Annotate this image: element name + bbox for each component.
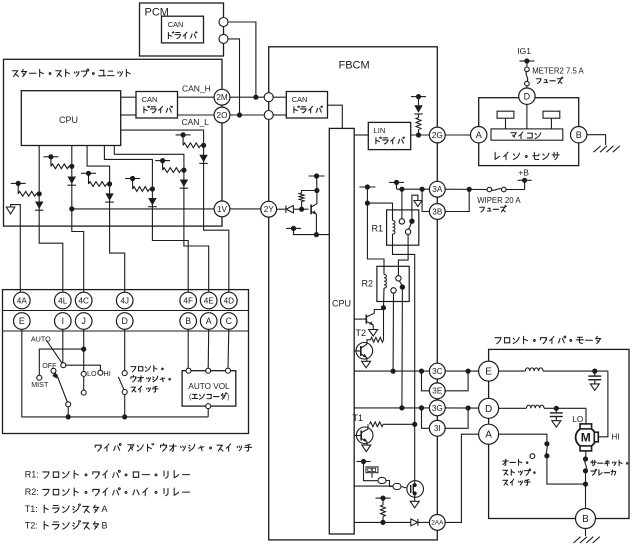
svg-text:3A: 3A: [432, 185, 443, 194]
svg-text:LIN: LIN: [374, 126, 386, 135]
wiper switch blade to AUTO: [46, 340, 62, 363]
svg-text:4C: 4C: [78, 296, 89, 305]
wire 3C to E: [445, 369, 479, 374]
svg-text:3G: 3G: [432, 404, 443, 413]
pull-up tap R1 coil: [359, 184, 375, 205]
label LO: [572, 415, 583, 424]
transistor T1: [354, 424, 373, 451]
legend T1: [25, 504, 108, 514]
terminal C: [221, 313, 238, 330]
wire to 3A: [397, 187, 430, 192]
svg-text:R2: R2: [362, 279, 374, 289]
connector 4J: [116, 292, 133, 309]
legend T2: [25, 520, 108, 530]
auto stop switch: [499, 434, 586, 484]
chassis ground rain sensor: [594, 146, 620, 152]
wire CPU to 4J cell: [87, 146, 125, 293]
wiper switch AUTO contact: [61, 329, 66, 367]
svg-text:B: B: [576, 130, 582, 140]
wire CPU to 4C cell: [69, 146, 83, 293]
svg-text:4F: 4F: [183, 296, 193, 305]
transistor 2Y input: [311, 191, 317, 235]
wire PCM CAN_H to bus: [228, 22, 259, 100]
svg-text:4E: 4E: [204, 296, 215, 305]
+B feed tap: [506, 178, 531, 190]
svg-text:CPU: CPU: [59, 115, 78, 125]
label front wiper motor: [495, 336, 601, 344]
wire CPU to CAN driver CAN_H: [121, 96, 136, 98]
connector 4L: [55, 292, 72, 309]
wire 3E branch: [422, 371, 430, 391]
wire 1V to 2Y: [230, 208, 262, 210]
resistor 2AA: [380, 505, 385, 525]
svg-text:A: A: [102, 504, 108, 514]
wire R2 NO contact to 3G line: [401, 290, 404, 408]
wire A to AUTO VOL: [207, 329, 210, 368]
svg-text:D: D: [122, 316, 128, 326]
CPU (FBCM): [329, 128, 354, 534]
wire CPU to 4F cell: [104, 146, 188, 293]
svg-text:1V: 1V: [217, 205, 228, 214]
wire D line to LO brush: [585, 408, 587, 424]
label circuit breaker: [591, 460, 628, 475]
svg-text:T1:: T1:: [25, 504, 38, 514]
wire J node to MIST contact: [37, 349, 84, 380]
signal ground (start-stop unit): [6, 205, 20, 292]
caption wiper and washer switch: [95, 443, 251, 451]
CPU (start-stop unit): [21, 91, 120, 146]
svg-text:LO: LO: [87, 369, 97, 378]
terminal J: [75, 313, 92, 330]
svg-text:CAN: CAN: [142, 95, 158, 104]
connector 2O: [178, 107, 230, 123]
svg-text:3C: 3C: [432, 367, 443, 376]
wire D to microcomputer: [526, 104, 528, 128]
connector D rain sensor: [519, 88, 535, 104]
svg-text:2O: 2O: [217, 111, 228, 120]
svg-text:HI: HI: [611, 433, 619, 442]
pull-up tap for 4E input: [155, 158, 170, 170]
diode 2AA: [411, 519, 430, 526]
svg-text:3I: 3I: [434, 424, 441, 433]
pull-up tap LIN: [411, 94, 426, 105]
resistor 4C input: [51, 164, 75, 169]
svg-text:D: D: [524, 91, 531, 101]
connector 3G: [429, 400, 445, 416]
svg-text:J: J: [81, 316, 85, 326]
svg-text:FBCM: FBCM: [339, 60, 370, 72]
wire 2AA to A: [445, 434, 479, 522]
label OFF: [42, 361, 57, 370]
rain sensor element left: [497, 111, 514, 129]
inductor D line: [499, 405, 586, 411]
wire AUTO VOL to common bus: [207, 409, 209, 417]
connector 4D: [221, 292, 238, 309]
transistor T2: [354, 343, 372, 368]
legend R1: [25, 470, 190, 480]
pull-up tap for 4D input: [176, 132, 191, 145]
CAN driver (FBCM): [273, 92, 328, 119]
svg-text:METER2 7.5 A: METER2 7.5 A: [532, 67, 584, 76]
svg-text:3E: 3E: [432, 387, 443, 396]
main wiper blade (OFF position): [51, 368, 71, 419]
terminal I: [55, 313, 72, 330]
label WIPER fuse: [477, 196, 521, 212]
svg-text:T2:: T2:: [25, 521, 38, 531]
svg-text:4J: 4J: [120, 296, 129, 305]
pull-down tap 2AA: [376, 496, 391, 506]
resistor 4D input: [183, 143, 206, 148]
wiper speed blade LO: [81, 376, 86, 395]
PCM CAN_L output pin: [219, 34, 228, 43]
relay R2 coil: [367, 203, 386, 310]
wire 3I branch: [422, 408, 430, 428]
svg-text:2M: 2M: [216, 93, 228, 102]
microcomputer box: [491, 129, 563, 140]
wire PCM CAN_L to bus: [228, 39, 242, 118]
resistor 2Y base: [299, 188, 319, 209]
svg-text:4D: 4D: [224, 296, 235, 305]
label IG1: [517, 46, 531, 56]
resistor T2 base: [367, 308, 384, 344]
label MIST: [31, 380, 49, 389]
label +B: [518, 168, 529, 178]
pull-up tap 2Y: [309, 173, 325, 190]
legend R2: [25, 487, 190, 497]
pull-up tap 2Y emitter: [286, 226, 329, 237]
svg-text:2G: 2G: [432, 131, 443, 140]
svg-text:A: A: [485, 430, 492, 441]
wire CPU to 3G: [354, 405, 430, 410]
connector 4A: [13, 292, 30, 309]
svg-text:E: E: [19, 316, 25, 326]
PCM CAN_H output pin: [219, 18, 228, 27]
start-stop unit box: [4, 59, 223, 226]
svg-text:R1: R1: [372, 224, 384, 234]
svg-text:+B: +B: [518, 168, 529, 178]
svg-text:AUTO VOL: AUTO VOL: [188, 382, 230, 391]
svg-text:CPU: CPU: [332, 299, 351, 309]
svg-text:C: C: [226, 316, 233, 326]
connector A motor: [479, 424, 499, 444]
wire C to AUTO VOL: [227, 329, 230, 368]
front wiper motor box: [489, 349, 629, 518]
diode 4C input: [68, 177, 77, 186]
label AUTO: [31, 335, 51, 344]
resistor 4E input: [163, 168, 187, 173]
label LO HI: [87, 369, 111, 378]
AUTO VOL encoder: [182, 368, 236, 408]
svg-text:CAN: CAN: [168, 20, 184, 29]
relay R2 box: [362, 266, 410, 301]
resistor LIN: [416, 114, 421, 135]
MOSFET output: [407, 481, 424, 508]
label CAN_L: [182, 117, 210, 127]
rain sensor element right: [543, 111, 560, 129]
svg-text:3B: 3B: [432, 207, 443, 216]
connector 3I: [429, 420, 445, 436]
wire AUTO contact to HI contact: [66, 365, 103, 375]
terminal D: [116, 313, 133, 330]
svg-text:AUTO: AUTO: [31, 335, 51, 344]
connector 3E: [429, 383, 445, 399]
wire CPU to 2AA: [354, 521, 411, 523]
wire 3B to fuse node: [445, 189, 469, 211]
wire CPU to gate driver: [354, 485, 393, 487]
wire breaker to B: [585, 484, 587, 509]
svg-text:HI: HI: [104, 369, 111, 378]
connector B rain sensor: [571, 127, 587, 143]
svg-text:T1: T1: [353, 413, 364, 423]
washer switch: [118, 329, 127, 419]
svg-text:IG1: IG1: [517, 46, 531, 56]
label front washer switch: [131, 366, 170, 393]
label rain sensor: [495, 152, 559, 159]
transistor T2 driver: [354, 308, 383, 336]
svg-text:R2:: R2:: [25, 487, 39, 497]
relay R1 contacts: [399, 189, 422, 234]
svg-text:2AA: 2AA: [431, 520, 444, 527]
svg-text:E: E: [485, 367, 492, 378]
connector D motor: [479, 398, 499, 418]
wire terminal J to LO contact: [81, 329, 86, 376]
wire E line to HI brush: [599, 371, 608, 437]
diode 4D input: [199, 155, 208, 164]
circuit breaker: [583, 451, 588, 487]
connector 4C: [75, 292, 92, 309]
chassis ground motor: [574, 529, 600, 544]
svg-text:R1:: R1:: [25, 470, 39, 480]
diode 2Y input: [276, 206, 308, 213]
terminal A: [200, 313, 217, 330]
diode LIN: [414, 105, 422, 114]
diode 4E input: [180, 180, 189, 189]
svg-text:4L: 4L: [58, 296, 68, 305]
svg-text:M: M: [581, 431, 591, 445]
relay R1 coil: [367, 203, 414, 481]
resistor 4F input: [133, 186, 155, 191]
svg-text:): ): [227, 394, 229, 401]
diode 4F input: [148, 198, 157, 207]
connector 1V: [72, 201, 230, 217]
label auto stop switch: [503, 459, 536, 485]
connector 2G: [411, 127, 445, 143]
wire CPU to 4D cell: [121, 130, 229, 292]
svg-text:CAN_H: CAN_H: [182, 84, 211, 94]
label CAN_H: [182, 84, 211, 94]
label HI: [611, 433, 619, 442]
svg-text:I: I: [62, 316, 64, 326]
connector A rain sensor: [445, 127, 487, 143]
LIN driver: [354, 122, 410, 149]
pull-up tap gate driver: [357, 459, 379, 481]
connector 2M: [178, 89, 230, 105]
connector 3B: [429, 204, 445, 220]
resistor 4L input: [18, 191, 42, 196]
rain sensor box: [479, 98, 579, 166]
wire CPU to 4E cell: [114, 146, 208, 293]
wiper and washer switch box: [3, 290, 249, 434]
wire R2 common to 3C line: [392, 293, 394, 371]
svg-text:CAN: CAN: [292, 95, 308, 104]
wire CPU to CAN driver CAN_L: [121, 114, 136, 116]
fuse WIPER 20A: [487, 187, 506, 192]
svg-text:4A: 4A: [17, 296, 28, 305]
CAN driver (PCM): [162, 16, 204, 43]
wire B to ground: [587, 135, 606, 145]
connector 2AA: [429, 515, 445, 531]
capacitor D line: [550, 408, 563, 427]
svg-text:B: B: [582, 514, 589, 525]
svg-text:B: B: [102, 521, 108, 531]
FBCM CAN_L input pin: [264, 111, 273, 120]
label METER2 fuse: [532, 67, 584, 84]
CAN driver (start-stop unit): [136, 92, 178, 119]
terminal E: [13, 313, 30, 330]
svg-text:A: A: [476, 130, 482, 140]
capacitor E line: [588, 371, 601, 390]
wire 3I branch to D line: [444, 408, 468, 428]
svg-text:MIST: MIST: [31, 380, 49, 389]
connector 3C: [429, 363, 445, 379]
connector 4E: [200, 292, 217, 309]
connector 3A: [429, 181, 445, 197]
wire CPU to 4L cell: [39, 146, 63, 293]
motor M: [576, 424, 599, 451]
gate driver buffers: [378, 478, 407, 490]
wire 3G to D: [445, 405, 479, 410]
wire R1 common to R2 contact: [398, 234, 408, 275]
label T1: [353, 413, 364, 423]
inductor E line: [499, 368, 608, 374]
diode 4L input: [35, 202, 44, 211]
resistor T1 collector: [370, 422, 418, 427]
pull-up tap for 4L input: [11, 181, 26, 194]
pull-up tap for 4C input: [43, 154, 58, 166]
pull-up tap for 4J input: [81, 171, 96, 184]
wire CAN driver to CPU: [328, 105, 343, 128]
wire CPU to 3C: [354, 369, 430, 374]
wire 2M to FBCM CAN_H: [230, 96, 265, 98]
connector 2Y: [261, 201, 277, 217]
resistor 4J input: [89, 181, 113, 186]
pull-up tap 3A: [389, 180, 404, 189]
svg-text:A: A: [206, 316, 212, 326]
connector B motor: [576, 509, 596, 529]
wire B to AUTO VOL: [187, 329, 189, 368]
IG1 feed tap: [519, 58, 534, 67]
wire 2O to FBCM CAN_L: [230, 114, 265, 116]
fuse METER2 7.5A: [525, 67, 530, 88]
PCM module box: [140, 3, 224, 56]
connector 4F: [180, 292, 197, 309]
svg-text:LO: LO: [572, 415, 583, 424]
svg-text:WIPER 20 A: WIPER 20 A: [477, 196, 521, 205]
connector E motor: [479, 361, 499, 381]
wire terminal E to common bus: [22, 329, 208, 417]
svg-text:T2: T2: [356, 328, 367, 338]
svg-text:D: D: [485, 404, 492, 415]
wire 3B branch: [422, 189, 430, 211]
charge pump box: [366, 467, 378, 478]
terminal B: [180, 313, 197, 330]
wire 3A to fuse: [445, 187, 487, 192]
diode 4J input: [105, 193, 114, 202]
svg-text:2Y: 2Y: [264, 205, 275, 214]
FBCM box: [269, 47, 438, 540]
relay R1 box: [372, 210, 419, 245]
FBCM CAN_H input pin: [264, 93, 273, 102]
pull-up tap for 4F input: [125, 176, 140, 189]
wire 3E branch to E line: [444, 371, 468, 391]
relay R2 contacts: [391, 276, 405, 294]
svg-text:CAN_L: CAN_L: [182, 117, 210, 127]
label T2: [356, 328, 367, 338]
svg-text:B: B: [185, 316, 191, 326]
